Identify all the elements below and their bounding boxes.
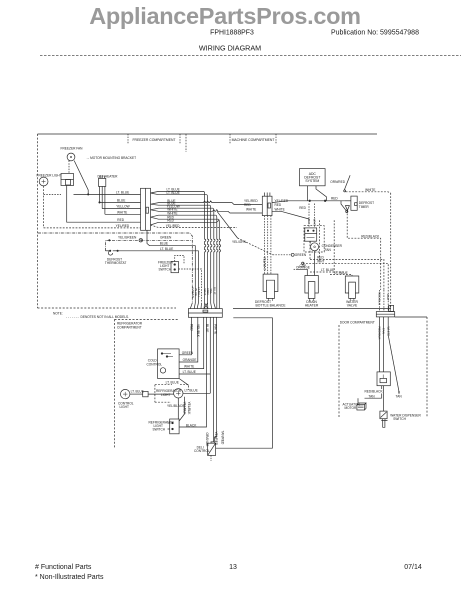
svg-text:TAN/RED: TAN/RED bbox=[220, 431, 224, 445]
relay dashed outline box bbox=[304, 226, 324, 252]
cold control box bbox=[158, 349, 189, 385]
svg-text:LT. BLUE: LT. BLUE bbox=[183, 370, 196, 374]
machine compartment bottom border solid right part bbox=[233, 307, 391, 309]
deli control box bbox=[208, 443, 216, 455]
wire blue 2 bbox=[151, 204, 212, 303]
wire yel/red freezer light dashed to connector bbox=[44, 227, 141, 229]
refrigerator light switch bbox=[168, 419, 180, 434]
dashed outline around lamps bbox=[155, 385, 189, 403]
svg-text:TIMER: TIMER bbox=[359, 205, 370, 209]
long vertical wire to deli control bbox=[216, 318, 273, 448]
freezer compartment label ticks bbox=[127, 134, 129, 144]
capacitor junction symbol bbox=[294, 262, 308, 275]
deli control drop stub bbox=[210, 455, 212, 461]
wire blue def heater to connector bbox=[100, 201, 141, 203]
svg-text:YEL/RED: YEL/RED bbox=[214, 432, 218, 446]
svg-text:VALVE: VALVE bbox=[347, 303, 358, 307]
svg-text:WHITE: WHITE bbox=[117, 210, 127, 214]
svg-text:GREEN: GREEN bbox=[295, 253, 307, 257]
svg-text:YEL/GRN: YEL/GRN bbox=[232, 240, 247, 244]
svg-text:RED: RED bbox=[331, 197, 338, 201]
dashed wires red and wht bbox=[303, 241, 388, 290]
svg-text:LT. BLUE: LT. BLUE bbox=[167, 191, 180, 195]
wire orange to cold control bbox=[179, 317, 198, 362]
svg-text:RED: RED bbox=[275, 203, 282, 207]
machine compartment label ticks bbox=[229, 134, 231, 144]
svg-text:FAN: FAN bbox=[325, 248, 332, 252]
freezer box side dash bbox=[185, 134, 187, 152]
defrost timer box bbox=[351, 196, 357, 210]
svg-text:DEF HEATER: DEF HEATER bbox=[98, 175, 119, 179]
rotated wire labels below connector bbox=[190, 324, 218, 338]
defrost heater plug 1 bbox=[263, 274, 278, 301]
wire from left border dash-dot bbox=[38, 233, 192, 240]
wire red 2 bbox=[151, 220, 220, 225]
svg-text:YEL/RED: YEL/RED bbox=[116, 224, 130, 228]
svg-text:BLUE: BLUE bbox=[205, 324, 209, 332]
wire green to cold control bbox=[179, 317, 191, 355]
svg-text:CONTROL: CONTROL bbox=[147, 362, 163, 366]
svg-text:ORANGE: ORANGE bbox=[183, 358, 197, 362]
refrigerator light lamp bbox=[174, 374, 211, 398]
defrost thermostat symbol bbox=[108, 251, 112, 255]
right border dashed wire bbox=[390, 193, 392, 308]
svg-text:DOOR COMPARTMENT: DOOR COMPARTMENT bbox=[340, 321, 375, 325]
svg-text:YEL/WHT: YEL/WHT bbox=[262, 257, 266, 271]
svg-text:LT. BLUE: LT. BLUE bbox=[131, 389, 144, 393]
red/black dashed wire to door bbox=[347, 210, 381, 290]
defrost heater plug 2 bbox=[305, 276, 318, 302]
compressor start relay box bbox=[305, 220, 334, 275]
svg-text:* Non-Illustrated Parts: * Non-Illustrated Parts bbox=[35, 574, 104, 581]
adc control box bbox=[300, 169, 326, 186]
svg-text:ORANGE: ORANGE bbox=[296, 266, 310, 270]
freezer fan motor circle bbox=[67, 153, 75, 161]
door compartment borders bbox=[339, 317, 427, 417]
svg-text:CONTROL: CONTROL bbox=[194, 449, 210, 453]
svg-text:GREEN: GREEN bbox=[182, 351, 194, 355]
diagram left border dashed bbox=[37, 134, 39, 308]
svg-text:LT BLU: LT BLU bbox=[197, 287, 201, 297]
svg-text:MOTOR: MOTOR bbox=[345, 406, 358, 410]
ground diagonal wire bbox=[217, 211, 238, 238]
svg-text:ORANGE: ORANGE bbox=[205, 433, 209, 447]
machine compartment connector block bbox=[262, 196, 272, 215]
motor mounting bracket box bbox=[61, 174, 74, 186]
svg-text:BLK: BLK bbox=[307, 219, 311, 225]
door connector block bbox=[376, 312, 394, 317]
svg-text:GREEN: GREEN bbox=[160, 236, 172, 240]
svg-text:TAN: TAN bbox=[396, 395, 403, 399]
wire lt. blue 1 bbox=[151, 191, 206, 303]
svg-text:YELLOW: YELLOW bbox=[116, 205, 129, 209]
relay pin rotated labels bbox=[307, 219, 317, 226]
water valve plug 3 bbox=[345, 276, 359, 301]
crossing diagonals above lower connector bbox=[190, 303, 215, 309]
svg-text:WHITE: WHITE bbox=[246, 208, 256, 212]
wire blue lower bbox=[147, 230, 195, 303]
wires below refrigerator connector bbox=[179, 317, 216, 443]
svg-text:LT. BLUE: LT. BLUE bbox=[160, 247, 173, 251]
svg-text:BLUE: BLUE bbox=[117, 198, 125, 202]
water dispenser switch bbox=[380, 411, 388, 427]
svg-text:SWITCH: SWITCH bbox=[159, 268, 172, 272]
svg-text:MACHINE COMPARTMENT: MACHINE COMPARTMENT bbox=[232, 138, 275, 142]
freezer light bulb circle bbox=[39, 177, 48, 186]
machine connector top leads bbox=[265, 193, 270, 197]
refrigerator compartment border dashed bbox=[115, 319, 179, 448]
wire red bracket to connector bbox=[67, 186, 141, 223]
svg-text:LIGHT: LIGHT bbox=[161, 393, 170, 397]
wire orn/red across machine area bbox=[272, 201, 345, 203]
svg-text:FREEZER FAN: FREEZER FAN bbox=[61, 147, 84, 151]
svg-text:LT. BLUE: LT. BLUE bbox=[185, 389, 198, 393]
svg-text:COMPARTMENT: COMPARTMENT bbox=[117, 326, 142, 330]
wire yellow bbox=[151, 208, 216, 303]
wire white 2 bbox=[151, 215, 219, 308]
svg-text:NOTE:: NOTE: bbox=[53, 312, 63, 316]
wire blue 1 to machine connector bbox=[151, 201, 263, 205]
wires below door connector bbox=[380, 317, 399, 394]
wire tan/red to deli control bbox=[215, 317, 217, 443]
main freezer connector block bbox=[141, 188, 151, 230]
svg-text:13: 13 bbox=[229, 564, 237, 571]
diagram top border bbox=[38, 133, 378, 135]
freezer door switch box bbox=[171, 262, 179, 273]
rotated wire labels above connector bbox=[191, 287, 217, 298]
condenser fan motor circle bbox=[311, 243, 319, 251]
svg-text:FREEZER LIGHT: FREEZER LIGHT bbox=[37, 174, 62, 178]
small connector at end of border bbox=[389, 305, 394, 311]
svg-text:ORN/RED: ORN/RED bbox=[330, 180, 345, 184]
yel/white rotated label and dashed drops to defrost plug bbox=[265, 216, 271, 275]
svg-text:LT. BLUE: LT. BLUE bbox=[166, 381, 179, 385]
svg-text:Publication No: 5995547988: Publication No: 5995547988 bbox=[331, 30, 419, 37]
svg-text:YEL/BLK: YEL/BLK bbox=[187, 402, 191, 416]
actuator motor 3d box bbox=[357, 403, 366, 410]
wire white 1 to machine connector bbox=[151, 210, 263, 213]
svg-text:BOTTLE BALANCE: BOTTLE BALANCE bbox=[256, 303, 287, 307]
rotated labels above door connector bbox=[378, 292, 391, 305]
rotated labels above deli control bbox=[205, 431, 225, 447]
horizontal dashed rule under title bbox=[40, 55, 461, 57]
wire to deli control bbox=[211, 317, 214, 443]
defrost heater connector drop leads bbox=[99, 186, 101, 202]
svg-text:FPHI1888PF3: FPHI1888PF3 bbox=[210, 30, 254, 37]
svg-text:BLUE: BLUE bbox=[160, 242, 168, 246]
svg-text:WHITE: WHITE bbox=[213, 324, 217, 334]
svg-text:RED: RED bbox=[117, 218, 124, 222]
wire lt. blue 2 bbox=[151, 193, 209, 303]
defrost timer switch lever bbox=[344, 190, 346, 192]
svg-text:RED: RED bbox=[190, 324, 194, 331]
compressor relay leads dashed bbox=[272, 204, 315, 228]
svg-text:RED: RED bbox=[244, 203, 251, 207]
svg-text:SWITCH: SWITCH bbox=[393, 417, 406, 421]
junction dots on freezer wires bbox=[88, 194, 89, 195]
green junction bbox=[273, 253, 295, 256]
wire lt. blue from defrost thermostat bbox=[117, 251, 198, 303]
wire lt blue freezer fan to connector bbox=[74, 193, 141, 195]
compressor dashed outline bbox=[319, 220, 321, 261]
control light lamp bbox=[121, 389, 174, 398]
freezer fan lead down to bracket bbox=[68, 161, 70, 174]
freezer fan diagonal lead bbox=[74, 161, 88, 195]
svg-text:RED/BLK: RED/BLK bbox=[378, 327, 382, 340]
svg-text:WHITE: WHITE bbox=[386, 327, 390, 337]
svg-text:YEL/RED: YEL/RED bbox=[166, 224, 180, 228]
wire white def heater to connector bbox=[105, 213, 141, 215]
svg-text:YEL/GREEN: YEL/GREEN bbox=[118, 236, 137, 240]
wire lt. blue to cold control bbox=[179, 317, 210, 374]
svg-text:FREEZER COMPARTMENT: FREEZER COMPARTMENT bbox=[132, 138, 175, 142]
svg-text:WHITE: WHITE bbox=[184, 365, 194, 369]
svg-text:WIRING DIAGRAM: WIRING DIAGRAM bbox=[199, 44, 261, 53]
yel/black vertical wires bbox=[178, 397, 184, 421]
svg-text:LT. BLUE: LT. BLUE bbox=[116, 190, 129, 194]
wire white to cold control bbox=[179, 317, 204, 368]
svg-text:WHITE: WHITE bbox=[365, 188, 375, 192]
svg-text:SYSTEM: SYSTEM bbox=[305, 179, 319, 183]
defrost timer plug arrow bbox=[345, 206, 349, 211]
wire white dashed from switch to right border bbox=[346, 192, 391, 193]
svg-text:WHT: WHT bbox=[312, 219, 316, 226]
svg-text:RED: RED bbox=[299, 206, 306, 210]
svg-text:LT. BLUE: LT. BLUE bbox=[321, 268, 334, 272]
wire from actuator to dispenser switch bbox=[358, 386, 383, 411]
svg-text:LIGHT: LIGHT bbox=[120, 405, 129, 409]
svg-text:RED/BLACK: RED/BLACK bbox=[365, 390, 384, 394]
svg-text:THERMOSTAT: THERMOSTAT bbox=[105, 261, 127, 265]
svg-text:# Functional Parts: # Functional Parts bbox=[35, 564, 92, 571]
svg-text:BLACK: BLACK bbox=[186, 423, 197, 427]
svg-text:WHT: WHT bbox=[317, 260, 324, 264]
adc box leads bbox=[272, 175, 391, 308]
leader from cold control to lamp dashed box bbox=[179, 379, 189, 386]
svg-text:WHT: WHT bbox=[386, 294, 390, 301]
svg-text:AppliancePartsPros.com: AppliancePartsPros.com bbox=[89, 3, 361, 29]
ground screw symbol bbox=[139, 239, 142, 242]
freezer door switch dashed leads bbox=[179, 269, 202, 303]
machine compartment bottom border dashed left part bbox=[38, 307, 177, 309]
refrigerator harness connector block bbox=[188, 309, 222, 318]
svg-text:LT. BLUE: LT. BLUE bbox=[335, 271, 348, 275]
door harness wires above connector bbox=[380, 290, 389, 312]
wire yel/red dashed bbox=[151, 225, 238, 228]
fan-out wires right of freezer connector bbox=[151, 191, 273, 308]
tan arrow head bbox=[398, 392, 400, 395]
ground green wire bbox=[106, 230, 202, 303]
svg-text:SWITCH: SWITCH bbox=[153, 428, 166, 432]
svg-text:- - - - - - - DENOTES NOT IN: - - - - - - - DENOTES NOT IN ALL MODELS. bbox=[66, 315, 129, 319]
lt. blue dashed wires to water valve bbox=[310, 272, 352, 276]
svg-text:HEATER: HEATER bbox=[305, 303, 319, 307]
dispenser module box bbox=[377, 372, 390, 386]
freezer light dashed lead down bbox=[43, 186, 45, 228]
svg-text:TAN: TAN bbox=[382, 328, 386, 334]
svg-text:RED/BLK: RED/BLK bbox=[378, 292, 382, 305]
defrost heater connector box bbox=[99, 178, 106, 186]
svg-text:07/14: 07/14 bbox=[404, 564, 422, 571]
wire yellow def heater to connector bbox=[102, 208, 140, 210]
wire black down to light switch bbox=[179, 317, 206, 427]
wire red 1 bbox=[151, 217, 221, 308]
svg-text:BLUE: BLUE bbox=[212, 287, 216, 295]
svg-text:→ MOTOR MOUNTING BRACKET: → MOTOR MOUNTING BRACKET bbox=[86, 156, 136, 160]
svg-text:YEL/BLK: YEL/BLK bbox=[196, 324, 200, 338]
svg-text:WHITE: WHITE bbox=[275, 208, 285, 212]
svg-text:RED: RED bbox=[167, 219, 174, 223]
rotated labels below door connector bbox=[378, 327, 391, 340]
svg-text:RED/BLACK: RED/BLACK bbox=[361, 234, 380, 238]
